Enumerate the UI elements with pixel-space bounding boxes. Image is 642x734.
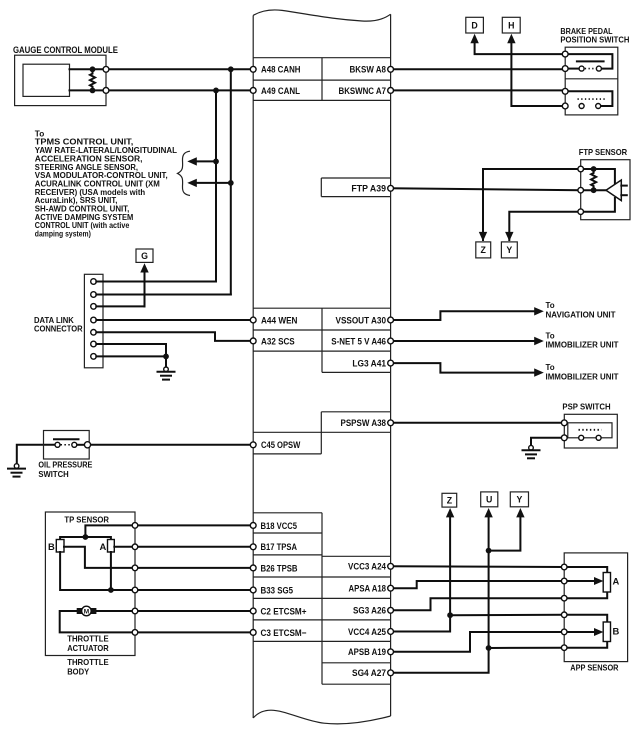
svg-text:VCC3 A24: VCC3 A24 [348, 561, 387, 572]
svg-text:U: U [486, 495, 492, 505]
svg-text:FTP A39: FTP A39 [351, 183, 386, 194]
svg-text:GAUGE CONTROL MODULE: GAUGE CONTROL MODULE [13, 44, 118, 55]
svg-text:SG4 A27: SG4 A27 [352, 667, 386, 678]
svg-text:A: A [613, 576, 620, 587]
svg-text:CONNECTOR: CONNECTOR [34, 324, 83, 334]
svg-text:M: M [84, 609, 89, 616]
svg-text:SG3 A26: SG3 A26 [353, 605, 386, 616]
svg-text:Y: Y [516, 495, 522, 505]
svg-text:B18 VCC5: B18 VCC5 [261, 520, 298, 531]
svg-text:G: G [141, 251, 148, 261]
svg-text:NAVIGATION UNIT: NAVIGATION UNIT [546, 311, 616, 320]
svg-text:THROTTLE: THROTTLE [67, 634, 109, 644]
svg-text:IMMOBILIZER UNIT: IMMOBILIZER UNIT [546, 372, 619, 381]
svg-text:THROTTLE: THROTTLE [67, 657, 109, 667]
svg-text:POSITION SWITCH: POSITION SWITCH [560, 36, 629, 45]
svg-text:BKSW A8: BKSW A8 [350, 64, 387, 75]
svg-text:C2 ETCSM+: C2 ETCSM+ [261, 605, 307, 616]
svg-text:H: H [508, 21, 514, 31]
svg-text:APSA A18: APSA A18 [349, 583, 387, 594]
svg-text:TP SENSOR: TP SENSOR [64, 514, 109, 524]
svg-text:PSP SWITCH: PSP SWITCH [562, 402, 610, 412]
svg-text:BODY: BODY [67, 667, 89, 677]
svg-text:B17 TPSA: B17 TPSA [261, 541, 298, 552]
svg-text:Y: Y [506, 245, 512, 255]
svg-text:C45 OPSW: C45 OPSW [261, 439, 300, 450]
svg-text:OIL PRESSURE: OIL PRESSURE [38, 459, 92, 469]
svg-text:VCC4 A25: VCC4 A25 [348, 626, 386, 637]
svg-text:A49 CANL: A49 CANL [261, 85, 300, 96]
svg-text:BKSWNC A7: BKSWNC A7 [339, 85, 387, 96]
svg-text:VSSOUT A30: VSSOUT A30 [336, 314, 387, 325]
svg-text:ACTUATOR: ACTUATOR [67, 643, 109, 653]
svg-text:APSB A19: APSB A19 [348, 646, 386, 657]
svg-text:B33 SG5: B33 SG5 [261, 584, 294, 595]
svg-text:B26 TPSB: B26 TPSB [261, 562, 298, 573]
svg-text:C3 ETCSM−: C3 ETCSM− [261, 627, 307, 638]
svg-text:A: A [100, 541, 107, 552]
svg-text:D: D [471, 21, 477, 31]
svg-text:Z: Z [481, 245, 487, 255]
svg-text:To: To [546, 301, 555, 310]
svg-text:To: To [546, 363, 555, 372]
svg-text:B: B [48, 541, 55, 552]
svg-text:A48 CANH: A48 CANH [261, 64, 301, 75]
svg-text:IMMOBILIZER UNIT: IMMOBILIZER UNIT [546, 341, 619, 350]
svg-text:LG3 A41: LG3 A41 [352, 358, 386, 369]
svg-text:SWITCH: SWITCH [38, 469, 68, 479]
svg-text:damping system): damping system) [35, 230, 91, 239]
svg-text:APP SENSOR: APP SENSOR [570, 662, 618, 672]
svg-text:PSPSW A38: PSPSW A38 [341, 417, 387, 428]
svg-text:B: B [613, 625, 620, 636]
svg-text:S-NET 5 V A46: S-NET 5 V A46 [331, 335, 386, 346]
svg-text:A44 WEN: A44 WEN [261, 314, 298, 325]
svg-text:Z: Z [447, 495, 453, 505]
svg-text:FTP SENSOR: FTP SENSOR [579, 147, 628, 157]
svg-text:To: To [546, 332, 555, 341]
svg-text:A32 SCS: A32 SCS [261, 335, 295, 346]
